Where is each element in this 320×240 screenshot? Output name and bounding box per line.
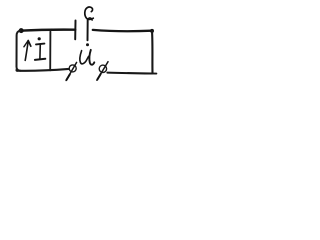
terminal a slash: [66, 62, 77, 80]
terminal a circle: [69, 65, 76, 72]
current source box (left/bottom/right edges): [17, 31, 21, 71]
node junction dot top-left: [19, 28, 24, 33]
wire right edge: [151, 31, 154, 73]
capacitor right plate top hook: [88, 18, 92, 21]
wire top-right segment: [93, 30, 152, 31]
current source box right edge: [49, 32, 51, 71]
wire top-left segment: [21, 30, 76, 31]
node blob bottom-left corner: [16, 69, 19, 72]
capacitor C right plate: [87, 19, 89, 40]
label u-dot (phasor voltage): [86, 43, 89, 46]
capacitor C left plate: [74, 21, 76, 40]
label c: [85, 7, 94, 19]
terminal b slash: [97, 62, 108, 80]
wire bottom-right corner foot: [149, 72, 157, 74]
label I-dot (phasor current): [38, 37, 41, 40]
arrow (current direction): [25, 41, 28, 60]
node corner dot top-right: [150, 29, 154, 33]
wire bottom-left segment (box bottom edge continues to terminal a): [17, 69, 69, 71]
terminal b circle: [99, 65, 106, 72]
wire bottom-right segment: [107, 72, 152, 75]
